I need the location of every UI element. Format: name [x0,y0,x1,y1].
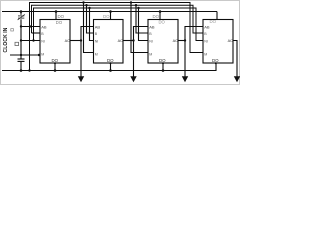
node dot rail A gap2 [130,1,132,3]
wire U3 right pin stub y40.5 [178,40,185,42]
wire gap1 drop D1 rail A to U2 pin M [84,3,94,53]
wire rail B [32,5,204,33]
node dot rail B gap1 [85,4,87,6]
node dot x21 y40.5 [20,39,22,41]
node dot arrow stem1 right pin [80,39,82,41]
wire U1 bottom pin to common line [54,63,56,71]
svg-text:DO: DO [103,14,110,19]
svg-text:M: M [95,52,98,56]
wire input vertical at x21 to bottom line [20,62,22,71]
wire U2 bottom pin to common line [110,63,112,71]
svg-text:AB: AB [95,25,101,30]
node dot rail A on stub y26.5 [29,25,31,27]
node dot arrow stem3 right pin [184,39,186,41]
arrowhead output 1 [78,76,84,82]
svg-text:NI: NI [149,39,153,43]
node dot rail C on stub y40.5 [32,39,34,41]
wire gap2 drop D3 rail C to U3 pin NI [139,8,149,41]
node dot U1 bottom pin at box [54,62,56,64]
arrowhead output 4 [234,76,240,82]
node dot arrow stem2 right pin [132,39,134,41]
wire clock tap to U3 top pin [159,12,161,20]
svg-text:DO: DO [159,58,166,63]
svg-text:AC: AC [173,39,179,43]
node dot rail B gap2 [135,4,137,6]
IC U3 box [148,20,178,64]
svg-text:NI: NI [95,39,99,43]
node dot rail A bottom line [28,69,30,71]
wire U3 bottom pin to common line [162,63,164,71]
node dot U2 bottom pin at box [110,62,112,64]
IC U1 box [40,20,70,64]
node dot U3 bottom pin on line [162,69,165,72]
wire stub U1 pin NI y40.5 [21,40,40,42]
node dot clock tap U1 [55,10,58,13]
small box symbol near x16 y43 [15,42,19,45]
node dot pin y55 at box edge [38,54,40,56]
svg-text:M: M [204,52,207,56]
wire main clock line [2,11,217,13]
wire clock tap to U1 top pin [55,12,57,20]
wire U2 right pin stub y40.5 [123,40,134,42]
wire rail A [30,3,204,71]
node dot U3 bottom pin at box [162,62,164,64]
wire rail C [34,8,204,41]
svg-text:DO: DO [52,58,59,63]
svg-text:DO: DO [107,58,114,63]
wire input vertical at x21 lower part [20,19,22,58]
svg-text:CLOCK IN: CLOCK IN [3,27,9,52]
wire gap1 drop D3 rail C to U2 pin NI [90,8,94,41]
wire stub U1 pin M y55 [10,54,40,56]
capacitor C1 plates on lower wire [18,58,25,60]
node dot rail A gap1 [82,1,84,3]
wire arrow stem 1 [81,27,94,79]
svg-text:AC: AC [228,39,234,43]
node dot U4 bottom pin at box [215,62,217,64]
node dot x21 y55 [20,54,22,56]
wire stub U1 pin AB y26.5 [21,26,40,28]
svg-text:DO: DO [58,14,65,19]
svg-text:NI: NI [204,39,208,43]
wire clock corner drop into U4 top pin [216,12,218,20]
wire gap2 drop D2 rail B to U3 pin B [136,5,148,33]
svg-text:AC: AC [118,39,124,43]
node dot rail C gap2 [137,7,139,9]
svg-text:M: M [41,52,44,56]
svg-text:DO: DO [210,19,217,24]
border frame [1,1,240,85]
wire U4 right pin stub y40.5 [233,41,237,79]
IC U4 box [203,20,233,64]
node dot clock tap U3 [159,10,162,13]
wire stub U1 pin B y33 [32,32,41,34]
IC U2 box [94,20,124,64]
svg-text:AB: AB [204,25,210,30]
node dot x21 bottom line [20,69,23,72]
wire arrow stem 3 [185,27,203,79]
svg-text:AC: AC [65,39,71,43]
svg-text:DO: DO [212,58,219,63]
switch S1 plates on clock wire [18,15,24,17]
node dot clock tap U2 [109,10,112,13]
arrowhead output 3 [182,76,188,82]
arrowhead output 2 [130,76,136,82]
wire input vertical at x21 [20,12,22,15]
wire gap1 drop D2 rail B to U2 pin B [87,5,94,33]
node dot U1 bottom pin on line [54,69,57,72]
node dot rail C gap1 [88,7,90,9]
node dot x21 y26.5 [20,25,22,27]
svg-text:AB: AB [149,25,155,30]
node dot U2 bottom pin on line [109,69,112,72]
wire gap2 drop D1 rail A to U3 pin M [131,3,148,53]
wire arrow stem 2 [134,27,149,79]
svg-text:DO: DO [153,14,160,19]
label tiny mark near x11 y29 [11,29,14,31]
wire bottom common line [2,63,216,71]
switch S1 actuator diagonal [18,14,25,20]
svg-text:M: M [149,52,152,56]
wire U1 right pin stub y40.5 [70,40,81,42]
svg-text:AB: AB [41,25,47,30]
svg-text:DO: DO [56,20,63,25]
svg-text:NI: NI [41,39,45,43]
svg-text:DO: DO [159,20,166,25]
wire clock tap to U2 top pin [110,12,112,20]
node dot input tap x21 [20,10,23,13]
